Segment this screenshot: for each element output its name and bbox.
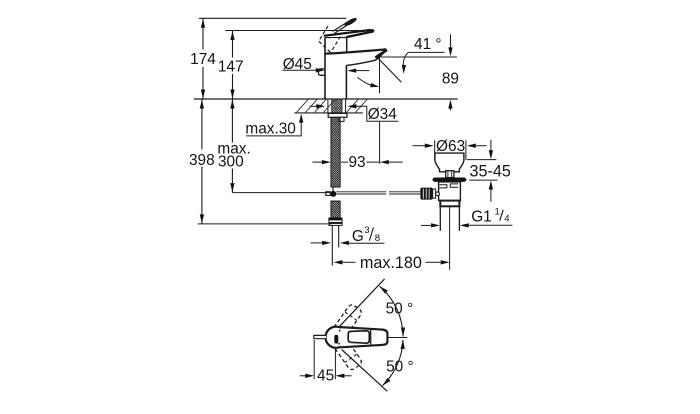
projection line below deck: [379, 121, 381, 163]
D45 leader left arrow: [283, 69, 317, 71]
41deg diagonal reference line: [379, 59, 402, 83]
top view: index dots: [339, 330, 341, 332]
svg-text:89: 89: [442, 70, 459, 87]
tailpipe: [440, 206, 459, 231]
top view: handle tip division line: [370, 329, 372, 345]
deck underside line: [294, 112, 363, 114]
pop-up axis line / max180 extension: [449, 207, 451, 270]
dim 89 upper segment: [450, 34, 452, 48]
supply hose braid upper: [331, 117, 340, 187]
398 extension line to hose nut: [198, 223, 332, 225]
deck / counter top line: [194, 98, 458, 100]
max300 extension line to ball joint: [232, 192, 330, 194]
svg-text:174: 174: [190, 51, 216, 68]
G3/8 arrows: [311, 242, 323, 244]
spout outlet reference line: [381, 56, 457, 58]
ref line 147 level: [225, 30, 372, 32]
clevis connector: [326, 192, 331, 196]
svg-text:93: 93: [348, 154, 365, 171]
supply tube: [338, 225, 340, 247]
top view: dashed handle rotated down 50deg: [334, 339, 363, 371]
dim max300 vertical: [231, 99, 233, 193]
lower 50deg arc with arrows: [383, 340, 404, 386]
svg-text:50 °: 50 °: [386, 301, 414, 318]
svg-text:G: G: [352, 228, 364, 245]
nut plate: [433, 189, 436, 198]
lever neck lines: [333, 22, 349, 33]
G3/8 connector nut: [329, 218, 342, 225]
max.30 leader: [246, 120, 301, 136]
svg-text:G1: G1: [471, 208, 492, 225]
dim 45 extension lines: [314, 340, 335, 379]
mounting hole edges: [328, 99, 346, 113]
svg-text:41 °: 41 °: [414, 36, 442, 53]
svg-text:45: 45: [317, 367, 334, 384]
41deg curved leader: [403, 52, 408, 65]
dim 398 vertical: [201, 99, 203, 224]
svg-text:Ø34: Ø34: [368, 106, 398, 123]
deck section hatching: [297, 100, 368, 113]
pull rod: [332, 187, 334, 191]
top view: cap slot: [334, 335, 338, 344]
svg-text:8: 8: [375, 233, 380, 244]
svg-text:35-45: 35-45: [469, 163, 510, 181]
lever knob tip: [343, 17, 357, 28]
pop-up flange (dark): [433, 178, 467, 182]
dim 174 vertical line: [202, 18, 204, 99]
side tab on body: [319, 69, 326, 75]
upper 50deg arc with arrows: [380, 286, 404, 336]
svg-text:3: 3: [364, 225, 369, 236]
lift rod boss: [446, 171, 454, 178]
svg-text:300: 300: [218, 154, 244, 171]
top view: 50deg upper diagonal: [339, 279, 385, 327]
knurled rod nut: [420, 188, 432, 200]
svg-text:398: 398: [189, 152, 215, 169]
lever (closed position, tapering wedge): [324, 30, 370, 36]
faucet body left edge: [324, 38, 326, 99]
pop-up body: [439, 182, 461, 201]
dim 89 lower arrow at deck: [449, 107, 451, 110]
spout underside: [346, 50, 387, 66]
cartridge housing front edge: [345, 37, 347, 53]
body slot notches: [440, 184, 459, 188]
threaded shank through deck: [332, 99, 342, 113]
svg-text:1: 1: [495, 206, 500, 217]
dim G1 1/4 arrows: [421, 224, 431, 226]
supply hose braid lower: [331, 201, 340, 218]
svg-text:max.30: max.30: [245, 120, 295, 137]
41deg underline: [408, 51, 444, 53]
washer under deck: [328, 113, 347, 117]
ref line top of lever (174 level): [199, 17, 346, 19]
dim 93: [312, 161, 322, 163]
dim D63: [413, 145, 425, 147]
ball joint: [330, 191, 336, 197]
top view: handle cutout: [348, 331, 369, 343]
dim 35-45: [467, 160, 497, 181]
spout outlet face (dark): [375, 50, 386, 58]
G1 1/4 underline: [468, 224, 512, 226]
faucet body right edge: [345, 65, 347, 99]
D45 right arrow: [356, 70, 370, 72]
spout top edge: [325, 49, 386, 53]
dashed lever alternate position: [319, 26, 341, 52]
top view: centerline right: [388, 337, 407, 339]
pivot screw: [436, 192, 440, 196]
hose clip tab: [339, 117, 344, 121]
top view: handle body: [341, 327, 388, 347]
lower lock nut: [440, 201, 459, 207]
41deg angle arc arrow: [357, 77, 374, 86]
D34 right arrow and leader: [356, 106, 399, 121]
svg-text:50 °: 50 °: [386, 358, 414, 375]
spout tip vertical projection line: [379, 57, 381, 93]
horizontal pop-up rod: [336, 192, 425, 194]
D34 left arrow: [310, 105, 318, 107]
top view: rear nub: [314, 335, 326, 338]
top view: body cap circle: [326, 327, 347, 348]
svg-text:147: 147: [218, 58, 244, 75]
dim max.180: [333, 260, 342, 264]
top view: 50deg lower diagonal: [342, 350, 388, 392]
supply tube left edge / max180 extension: [331, 225, 333, 265]
D63 extension ticks: [435, 140, 466, 160]
pop-up bell: [435, 153, 464, 172]
svg-text:4: 4: [504, 213, 510, 224]
housing seam under lever: [325, 37, 346, 39]
top view: dashed handle rotated up 50deg: [334, 303, 363, 335]
dim 45 arrows: [300, 375, 306, 377]
dim 147 vertical line: [232, 31, 234, 100]
svg-text:max.180: max.180: [360, 254, 422, 272]
